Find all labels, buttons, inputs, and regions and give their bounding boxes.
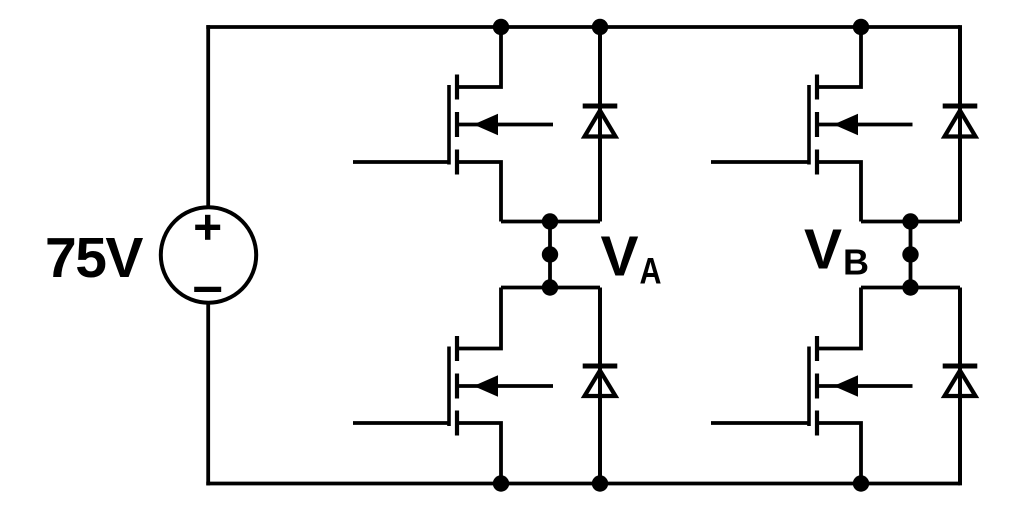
junction node A bottom bbox=[542, 279, 558, 295]
node A vertical wire bbox=[548, 222, 552, 288]
junction Q2 source / bottom rail bbox=[493, 475, 509, 491]
svg-text:V: V bbox=[804, 218, 842, 282]
junction Q3 drain / top rail bbox=[853, 19, 869, 35]
label node VB bbox=[804, 218, 869, 283]
diode D3 (body diode of Q3) bbox=[943, 25, 978, 221]
transistor Q1 (top-left MOSFET) bbox=[449, 75, 553, 175]
node A upper horizontal wire bbox=[501, 220, 600, 224]
node B lower horizontal wire bbox=[861, 286, 960, 290]
junction D2 anode / bottom rail bbox=[592, 475, 608, 491]
junction Q1 drain / top rail bbox=[493, 19, 509, 35]
node A lower horizontal wire bbox=[501, 286, 600, 290]
wire Q2 gate lead bbox=[353, 421, 449, 425]
wire top rail (+75V net) bbox=[206, 25, 960, 29]
wire source positive lead bbox=[206, 25, 210, 206]
junction node B middle bbox=[902, 246, 918, 262]
node B upper horizontal wire bbox=[861, 220, 960, 224]
wire Q2 drain to node A bbox=[457, 288, 501, 349]
wire bottom rail (return net) bbox=[206, 482, 960, 486]
junction D1 cathode / top rail bbox=[592, 19, 608, 35]
junction node B bottom bbox=[902, 279, 918, 295]
diode D4 (body diode of Q4) bbox=[943, 288, 978, 486]
wire Q2 source to bottom rail bbox=[457, 423, 501, 484]
wire source negative lead bbox=[206, 304, 210, 485]
diode D2 (body diode of Q2) bbox=[583, 288, 618, 484]
wire Q1 source to node A bbox=[457, 162, 501, 222]
label node VA bbox=[601, 225, 662, 292]
junction node A middle bbox=[542, 246, 558, 262]
wire Q4 gate lead bbox=[711, 421, 809, 425]
svg-text:V: V bbox=[601, 225, 639, 289]
transistor Q4 (bottom-right MOSFET) bbox=[809, 336, 913, 436]
junction Q4 source / bottom rail bbox=[853, 475, 869, 491]
wire Q3 gate lead bbox=[711, 160, 809, 164]
wire Q4 source to bottom rail bbox=[817, 423, 861, 484]
node B vertical wire bbox=[909, 222, 913, 288]
wire Q4 drain to node B bbox=[817, 288, 861, 349]
svg-text:A: A bbox=[640, 250, 662, 291]
voltage source V1 bbox=[161, 207, 256, 302]
wire Q1 gate lead bbox=[353, 160, 449, 164]
svg-text:B: B bbox=[843, 242, 869, 283]
svg-text:75V: 75V bbox=[45, 226, 143, 290]
junction node B top bbox=[902, 213, 918, 229]
junction node A top bbox=[542, 213, 558, 229]
transistor Q2 (bottom-left MOSFET) bbox=[449, 336, 553, 436]
diode D1 (body diode of Q1) bbox=[583, 27, 618, 222]
transistor Q3 (top-right MOSFET) bbox=[809, 75, 913, 175]
wire Q1 drain to top rail bbox=[457, 27, 501, 87]
wire Q3 drain to top rail bbox=[817, 27, 861, 87]
wire Q3 source to node B bbox=[817, 162, 861, 222]
